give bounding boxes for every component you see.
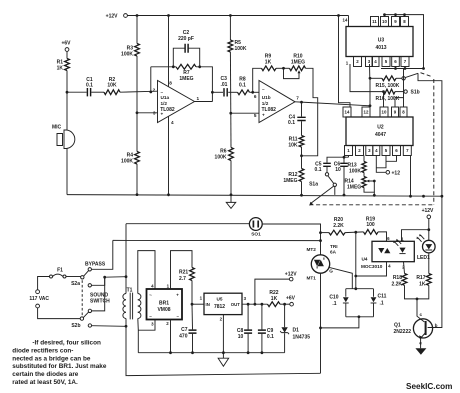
svg-text:1MEG: 1MEG	[347, 185, 361, 191]
svg-text:+6V: +6V	[61, 40, 71, 46]
pin 9 U3	[392, 17, 400, 27]
node +12-U4	[427, 228, 430, 231]
svg-text:F1: F1	[57, 267, 63, 273]
node C8-bar	[247, 351, 250, 354]
svg-text:6A: 6A	[330, 249, 337, 254]
svg-text:TL082: TL082	[262, 107, 277, 113]
svg-text:D1: D1	[293, 328, 300, 334]
wire R9-R10	[276, 67, 290, 69]
svg-text:C7: C7	[181, 327, 188, 333]
capacitor C4	[297, 117, 305, 120]
svg-text:1: 1	[167, 284, 170, 289]
svg-text:.1: .1	[380, 300, 384, 306]
wire R2 to U1a pin2	[120, 91, 158, 92]
svg-text:SWITCH: SWITCH	[90, 299, 110, 305]
wire R12 to rail	[301, 182, 303, 196]
wire T1 sec bottom	[137, 319, 140, 353]
resistor R19	[364, 230, 379, 235]
svg-text:11: 11	[372, 19, 377, 24]
svg-text:+6V: +6V	[286, 296, 296, 302]
node U1a pin3 bias	[136, 111, 139, 114]
svg-text:2.7: 2.7	[179, 276, 186, 282]
node +12 riser	[254, 303, 257, 306]
bridge rectifier BR1	[147, 289, 183, 320]
svg-text:5: 5	[385, 59, 388, 64]
node S1b-rail	[441, 195, 444, 198]
svg-text:3: 3	[368, 148, 371, 153]
svg-text:R18: R18	[393, 275, 402, 281]
svg-text:6: 6	[395, 148, 398, 153]
wire pin5 stub	[376, 156, 386, 168]
svg-text:+12V: +12V	[106, 14, 118, 20]
svg-text:10: 10	[335, 167, 341, 173]
wire VAC bottom to S2b	[38, 308, 81, 319]
wire pin3 riser	[369, 64, 371, 78]
wire U1a V+	[168, 16, 170, 87]
wire S1b pole	[418, 73, 442, 196]
wire C5 to S1a	[326, 167, 328, 172]
op-amp U1a	[158, 81, 195, 123]
resistor R6	[230, 113, 232, 147]
node R15 left	[369, 77, 372, 80]
svg-text:TL082: TL082	[160, 107, 175, 113]
svg-text:-If desired, four silicon: -If desired, four silicon	[32, 340, 101, 347]
switch S1a pivot	[333, 183, 336, 186]
node under-6	[394, 67, 397, 70]
svg-text:R15, 100K: R15, 100K	[376, 83, 400, 89]
svg-text:U1a: U1a	[161, 95, 170, 100]
svg-text:8: 8	[169, 80, 172, 85]
wire bias to pin3	[137, 112, 158, 114]
wire U1a output	[195, 101, 213, 103]
svg-text:5: 5	[385, 148, 388, 153]
resistor R3	[136, 16, 138, 44]
+6V terminal	[290, 302, 294, 306]
+12V supply terminal	[124, 14, 128, 18]
svg-text:1: 1	[197, 96, 200, 101]
+6V supply terminal	[65, 48, 69, 52]
svg-text:100: 100	[366, 222, 375, 228]
svg-text:2: 2	[220, 317, 223, 322]
contact S2a lower	[88, 284, 91, 287]
wire gate	[328, 267, 352, 289]
resistor R13	[363, 156, 365, 162]
svg-text:0.1: 0.1	[267, 334, 274, 340]
wire S2a lower	[92, 277, 105, 285]
wire R21 to U5 in	[191, 281, 193, 305]
wire snubber to MT1	[321, 317, 359, 328]
wire T1 primary bottom	[125, 319, 127, 327]
resistor R10	[290, 66, 306, 71]
wire bypass	[92, 240, 113, 269]
wire R5 to node	[229, 52, 231, 113]
wire U5 input	[192, 303, 204, 305]
wire +12V rail	[127, 15, 348, 17]
wire snubber bottom	[346, 316, 374, 318]
svg-text:certain the diodes are: certain the diodes are	[12, 371, 79, 378]
resistor R16	[384, 89, 396, 94]
wire R20 left	[321, 232, 330, 234]
wire pin8 riser U2	[403, 69, 405, 108]
svg-text:~: ~	[149, 314, 152, 319]
svg-text:~: ~	[149, 292, 152, 297]
node U1b pin5 bias	[229, 112, 232, 115]
contact S2b upper	[88, 309, 91, 312]
svg-text:Q1: Q1	[394, 322, 401, 328]
capacitor C11	[373, 289, 375, 297]
pin 14 U2	[343, 107, 351, 117]
svg-text:1MEG: 1MEG	[283, 178, 297, 184]
wire snubber top	[346, 288, 374, 290]
svg-text:1: 1	[347, 148, 350, 153]
pin 6 U3	[392, 57, 400, 67]
svg-text:U5: U5	[217, 296, 223, 301]
node rail-R4	[136, 193, 139, 196]
pin 1 U2	[345, 146, 353, 156]
resistor R2	[104, 90, 120, 95]
svg-text:2: 2	[166, 321, 169, 326]
wire gnd stub	[230, 195, 232, 203]
linkage dashes S1b	[421, 73, 432, 77]
svg-text:SO1: SO1	[251, 231, 261, 236]
resistor R4	[136, 113, 138, 152]
switch S2a pivot	[81, 276, 84, 279]
wire pin9 riser U2	[395, 98, 404, 107]
wire pin6 stub	[386, 156, 397, 162]
svg-text:R17: R17	[416, 275, 425, 281]
svg-text:0.1: 0.1	[288, 120, 295, 126]
wire R8 to pin6	[250, 91, 260, 93]
contact S1b-a	[402, 77, 405, 80]
svg-text:10K: 10K	[107, 82, 117, 88]
svg-text:U3: U3	[378, 38, 385, 44]
svg-text:220 pF: 220 pF	[178, 36, 194, 42]
svg-text:1N4735: 1N4735	[293, 334, 311, 340]
capacitor C8	[247, 304, 249, 329]
pin 11 U3	[371, 17, 379, 27]
svg-text:4047: 4047	[375, 132, 386, 138]
triac TR1	[311, 255, 329, 273]
svg-text:BR1: BR1	[159, 300, 169, 306]
wire to T1 top	[105, 276, 126, 279]
node snubber bottom	[358, 315, 361, 318]
node C7 top	[191, 303, 194, 306]
svg-text:2N2222: 2N2222	[394, 329, 412, 335]
svg-text:3: 3	[244, 296, 247, 301]
node C9-bar	[261, 351, 264, 354]
svg-text:1/2: 1/2	[262, 101, 269, 106]
svg-text:10K: 10K	[288, 142, 298, 148]
pin 5 U3	[382, 57, 390, 67]
wire U3 under tie	[381, 68, 424, 70]
wire +12V tap	[255, 279, 289, 304]
zener D1	[284, 304, 286, 327]
node gate drive	[354, 231, 357, 234]
node under-7	[404, 67, 407, 70]
fuse F1	[50, 275, 53, 278]
switch arm S1a	[328, 176, 334, 183]
node T1 primary top	[125, 275, 128, 278]
wire R15 to contact	[396, 77, 402, 79]
node rail-U1a4	[167, 193, 170, 196]
svg-text:100K: 100K	[121, 52, 133, 58]
resistor R7	[176, 64, 196, 69]
pin 7 U3	[401, 57, 409, 67]
svg-text:10: 10	[382, 110, 387, 115]
node C2-right	[198, 65, 201, 68]
svg-text:IN: IN	[206, 302, 210, 307]
wire LED1 to R17	[428, 253, 430, 274]
capacitor C9	[261, 304, 263, 329]
wire C3 to R8	[228, 91, 237, 93]
wire R3 to node	[136, 56, 138, 113]
wire U5 output	[242, 303, 268, 305]
resistor R14 pot	[363, 173, 365, 177]
wire R16 to contact	[395, 91, 404, 93]
node C9 top	[261, 303, 264, 306]
svg-text:100K: 100K	[349, 169, 361, 175]
svg-text:6: 6	[254, 94, 257, 99]
svg-text:0.1: 0.1	[86, 82, 93, 88]
svg-text:470: 470	[179, 333, 188, 339]
switch arm S2a	[84, 271, 89, 277]
svg-text:diode rectifiers con-: diode rectifiers con-	[12, 348, 73, 355]
wire bottom bar	[138, 352, 284, 354]
svg-text:6: 6	[394, 59, 397, 64]
svg-text:MT2: MT2	[307, 247, 317, 252]
wire U3 pin14 riser	[348, 16, 350, 27]
node R11-R12	[300, 154, 303, 157]
capacitor C6	[343, 157, 345, 163]
node tie-rail	[422, 195, 425, 198]
switch S2b pivot	[80, 317, 83, 320]
linkage dashes gang	[310, 204, 434, 206]
resistor R22	[268, 302, 281, 307]
pin 9 U2	[392, 107, 399, 117]
wire R18 R17 tie	[405, 285, 429, 299]
optocoupler U4	[372, 241, 414, 261]
node C8 top	[247, 303, 250, 306]
pin 4 U2	[373, 146, 380, 156]
wire pin4 to +12	[376, 156, 386, 173]
svg-text:100K: 100K	[121, 159, 133, 165]
wire Q1 base	[428, 196, 442, 327]
wire R4 to ground rail	[136, 164, 138, 195]
pin 10 U3	[381, 17, 389, 27]
svg-text:BYPASS: BYPASS	[85, 261, 106, 267]
wire C1 to R2	[91, 91, 104, 93]
svg-text:3: 3	[151, 322, 154, 327]
svg-text:.01: .01	[221, 82, 228, 88]
svg-text:C11: C11	[378, 294, 387, 300]
node pin4-gate	[354, 275, 357, 278]
svg-text:e: e	[419, 341, 422, 346]
wire R19 to U4 pin6	[378, 232, 387, 241]
node rail-U2feed	[337, 14, 340, 17]
node C4 tap	[300, 101, 303, 104]
svg-text:LED1: LED1	[417, 255, 430, 261]
wire output riser pin3	[369, 78, 371, 106]
svg-text:R16, 100K: R16, 100K	[376, 96, 400, 102]
wire bias to pin5	[231, 112, 259, 114]
resistor R20	[329, 230, 345, 235]
svg-text:4: 4	[374, 59, 377, 64]
svg-text:2.2K: 2.2K	[391, 282, 402, 288]
wire pin7 to rail	[410, 156, 412, 197]
pin 4 U3	[372, 57, 379, 67]
node mic-input	[66, 91, 69, 94]
wire U4 pin2 to R18	[404, 262, 405, 274]
svg-text:4013: 4013	[375, 45, 386, 51]
node rail-R3	[136, 14, 139, 17]
wire T1 sec top to BR1	[138, 251, 155, 294]
resistor R11	[299, 136, 304, 148]
node wiper	[373, 180, 376, 183]
wire node to output riser	[302, 102, 318, 155]
node MT2-R20	[319, 231, 322, 234]
wire +12V down	[428, 219, 430, 241]
wire C4 to R11	[301, 121, 303, 135]
wire R22 to +6V	[280, 303, 290, 305]
svg-text:1: 1	[401, 236, 404, 241]
contact S2b lower	[88, 324, 91, 327]
node pin2gnd-bar	[222, 351, 225, 354]
node MT1-snubber	[319, 327, 322, 330]
IC U3 4013	[346, 27, 413, 57]
capacitor C7	[191, 304, 194, 329]
svg-text:1: 1	[200, 295, 203, 300]
svg-text:117 VAC: 117 VAC	[29, 296, 49, 302]
svg-text:9: 9	[394, 19, 397, 24]
node C7-bar	[191, 351, 194, 354]
svg-text:substituted for BR1. Just make: substituted for BR1. Just make	[12, 363, 107, 370]
wire U5 pin2 gnd	[222, 315, 224, 358]
ground Q1	[415, 348, 426, 355]
wire S2b lower	[92, 325, 126, 328]
117 VAC terminals	[36, 290, 40, 294]
wire pin1 down	[348, 156, 350, 158]
wire R11 to node	[301, 147, 303, 156]
node C6-rail	[343, 194, 346, 197]
svg-text:2: 2	[356, 59, 359, 64]
svg-text:14: 14	[343, 18, 348, 23]
svg-text:4: 4	[151, 284, 154, 289]
svg-text:8: 8	[403, 19, 406, 24]
svg-text:1/2: 1/2	[161, 101, 168, 106]
svg-text:.1: .1	[332, 301, 336, 307]
pin 2 U3	[354, 57, 362, 67]
wire R10 pot loop	[284, 68, 300, 78]
svg-text:S1b: S1b	[411, 89, 420, 95]
wire U1a V- to rail	[168, 116, 170, 195]
svg-text:100K: 100K	[215, 155, 227, 161]
node R16-pin10	[382, 90, 385, 93]
wire S2b upper	[92, 277, 105, 311]
wire +12 feed to U2 pin14	[339, 16, 351, 108]
resistor R17	[426, 274, 431, 286]
wire C3 tap right	[212, 91, 223, 93]
svg-text:c: c	[420, 312, 423, 317]
wire feedback left	[151, 66, 176, 68]
switch arm S1b	[405, 73, 418, 77]
node C2-left	[172, 65, 175, 68]
wire R14 bottom	[364, 188, 374, 196]
wire R15 left	[370, 77, 382, 79]
svg-text:1K: 1K	[271, 296, 278, 302]
node D1 top	[283, 303, 286, 306]
svg-text:–: –	[177, 314, 180, 319]
node pin2-bar	[169, 351, 172, 354]
node tie-9	[394, 13, 397, 16]
wire pin1 node left	[327, 157, 349, 162]
ground top-section	[226, 202, 236, 208]
svg-text:4: 4	[388, 264, 391, 269]
wire neutral line	[113, 239, 321, 241]
resistor R12	[301, 156, 303, 169]
pin 3 U2	[366, 146, 373, 156]
contact S1a-a	[325, 173, 328, 176]
svg-text:14: 14	[345, 110, 350, 115]
svg-text:–: –	[161, 90, 164, 95]
LED LED1	[423, 240, 436, 253]
node T1 feed	[103, 276, 106, 279]
op-amp U1b	[259, 81, 295, 123]
node R14-rail	[373, 194, 376, 197]
wire C6 down	[343, 167, 345, 195]
IC U2 4047	[346, 117, 413, 146]
svg-text:12: 12	[364, 110, 369, 115]
node rail-R6	[230, 193, 233, 196]
svg-text:G: G	[329, 268, 333, 273]
svg-text:OUT: OUT	[231, 302, 240, 307]
svg-text:R21: R21	[179, 270, 188, 276]
wire BR1 pin2	[170, 320, 172, 353]
node pin6	[251, 91, 254, 94]
wire pin6 feedback up	[253, 68, 262, 92]
svg-text:10: 10	[238, 334, 244, 340]
svg-text:U2: U2	[377, 125, 384, 131]
capacitor C5	[323, 163, 331, 166]
capacitor C2	[185, 44, 188, 53]
svg-text:9: 9	[394, 110, 397, 115]
svg-text:5: 5	[254, 113, 257, 118]
resistor R9	[262, 66, 277, 71]
svg-text:1K: 1K	[419, 281, 426, 287]
svg-text:2: 2	[153, 88, 156, 93]
capacitor C1	[87, 88, 90, 96]
capacitor C3	[224, 88, 227, 96]
linkage arm S1a	[311, 186, 334, 203]
wire R6 to ground rail	[230, 161, 232, 195]
svg-text:MIC: MIC	[52, 125, 62, 131]
node rail-R5	[229, 14, 232, 17]
pin 6 U2	[393, 146, 401, 156]
resistor R18	[402, 274, 407, 286]
resistor R1	[65, 59, 70, 71]
+12V terminal mid	[289, 277, 293, 281]
wire R10 to output	[306, 68, 318, 102]
wire U4 pin4	[356, 262, 387, 276]
pin 10 U2	[380, 107, 388, 117]
svg-text:+: +	[262, 112, 265, 117]
wire MT1 down	[320, 273, 322, 373]
svg-text:4: 4	[375, 148, 378, 153]
wire U1b output	[295, 102, 370, 106]
node rail-U1a	[167, 14, 170, 17]
wiper arrow R10	[298, 70, 301, 73]
svg-text:U1b: U1b	[262, 95, 271, 100]
svg-text:–: –	[262, 87, 265, 92]
